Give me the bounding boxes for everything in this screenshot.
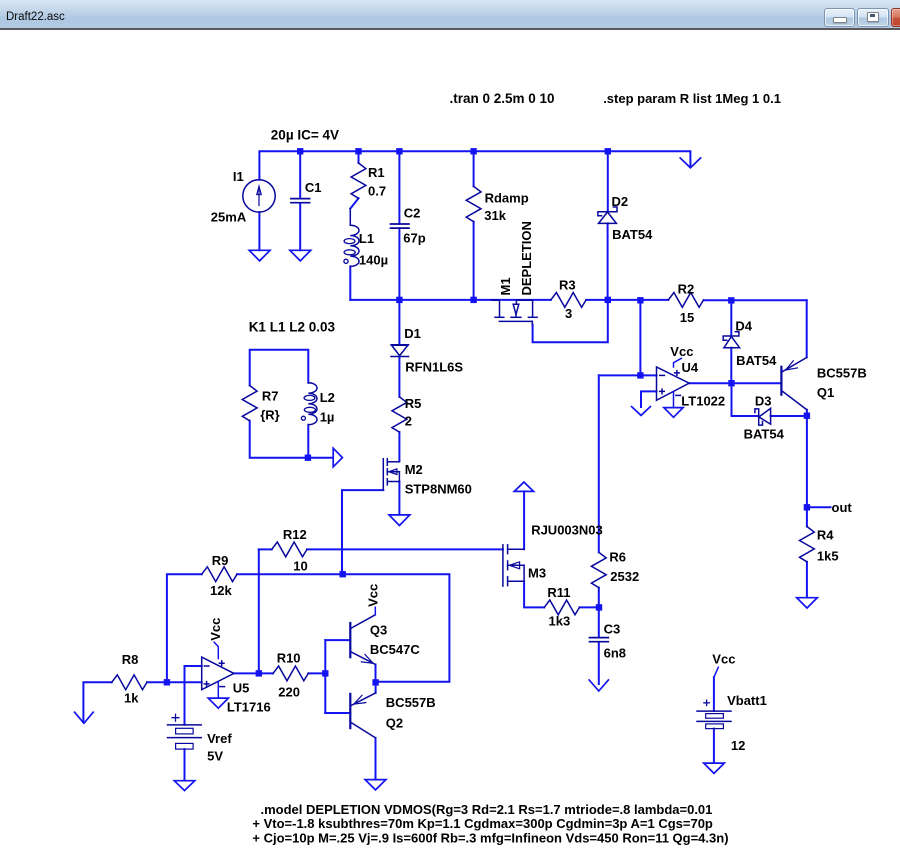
- current source I1: [243, 180, 275, 212]
- op-amp U5 power pins: [214, 642, 218, 658]
- capacitor C2: [391, 224, 410, 228]
- junction C2 top: [396, 148, 402, 154]
- svg-text:2532: 2532: [610, 569, 639, 584]
- wire bottom bus middle segment: [586, 299, 668, 301]
- svg-text:L2: L2: [320, 390, 335, 405]
- svg-text:{R}: {R}: [260, 407, 280, 422]
- Vcc net flag stub at Q3: [374, 607, 376, 615]
- junction U4 riser bus: [637, 297, 643, 303]
- svg-text:R2: R2: [678, 282, 695, 297]
- svg-text:Vcc: Vcc: [712, 651, 735, 666]
- diode D1: [391, 345, 409, 357]
- ground above M3 drain: [514, 482, 533, 491]
- svg-text:1k: 1k: [124, 691, 139, 706]
- capacitor C1: [291, 199, 310, 203]
- wire I1 bottom to ground: [258, 212, 260, 250]
- resistor R1: [351, 163, 366, 198]
- svg-text:+ Cjo=10p M=.25 Vj=.9 Is=600f: + Cjo=10p M=.25 Vj=.9 Is=600f Rb=.3 mfg=…: [252, 830, 728, 845]
- resistor R11: [544, 600, 579, 615]
- junction R11 R6 C3 node: [596, 604, 602, 610]
- wire U4 output to Q1 base node: [689, 382, 781, 384]
- svg-text:BAT54: BAT54: [612, 227, 653, 242]
- wire M1 gate to D2 node: [533, 300, 608, 342]
- ground under R4: [797, 598, 818, 608]
- ground under U4: [664, 408, 683, 418]
- svg-text:67p: 67p: [403, 231, 425, 246]
- wire junction to Q2 emitter: [375, 682, 377, 693]
- wire Q2 base stub: [325, 712, 350, 714]
- voltage source Vbatt1 battery: [697, 700, 731, 729]
- resistor R2: [668, 293, 703, 308]
- svg-text:M2: M2: [405, 462, 423, 477]
- wire Q1 collector to out node: [806, 410, 808, 508]
- wire L2 bottom lead: [307, 425, 309, 458]
- wire Rdamp bottom lead: [473, 222, 475, 300]
- transistor M1 depletion mosfet: [492, 300, 537, 325]
- wire Q3 base stub: [325, 639, 350, 641]
- diode D3 schottky: [755, 408, 771, 425]
- wire R9 left lead with riser to R8 node: [167, 574, 202, 682]
- wire R5 to M2 drain: [398, 432, 400, 461]
- transistor M2 STP8NM60: [383, 459, 399, 490]
- wire M2 source to ground: [398, 482, 400, 515]
- wire R1 top lead: [358, 151, 360, 163]
- wire Vref bottom to ground: [184, 749, 186, 781]
- wire U5 output to R10: [234, 672, 273, 674]
- svg-text:.model DEPLETION VDMOS(Rg=3 Rd: .model DEPLETION VDMOS(Rg=3 Rd=2.1 Rs=1.…: [261, 802, 713, 817]
- wire Q2 collector to ground: [375, 738, 377, 780]
- junction U4 minus input: [637, 372, 643, 378]
- junction R9 M2 gate node: [340, 571, 346, 577]
- wire feedback loop to emitters: [343, 574, 450, 682]
- svg-text:C3: C3: [604, 622, 621, 637]
- ground right of K1 loop: [333, 448, 342, 467]
- transistor Q1 BC557B: [781, 358, 806, 410]
- junction D2 bottom bus: [605, 297, 611, 303]
- svg-text:Q1: Q1: [817, 385, 834, 400]
- wire bottom bus left segment: [350, 299, 551, 301]
- wire R1 to L1 diagonal: [350, 198, 358, 208]
- svg-text:R1: R1: [368, 165, 385, 180]
- svg-text:M3: M3: [528, 566, 546, 581]
- resistor R12: [272, 542, 307, 557]
- wire Q3 emitter to junction: [375, 665, 377, 683]
- svg-text:12k: 12k: [210, 583, 232, 598]
- resistor R10: [273, 666, 308, 681]
- voltage source Vref battery: [168, 714, 202, 749]
- svg-text:R9: R9: [212, 553, 229, 568]
- svg-text:6n8: 6n8: [604, 645, 626, 660]
- svg-text:R4: R4: [817, 528, 834, 543]
- svg-text:3: 3: [565, 306, 572, 321]
- ground under Vbatt1: [704, 763, 725, 773]
- svg-text:.tran 0 2.5m 0 10: .tran 0 2.5m 0 10: [450, 91, 555, 106]
- transistor Q2 BC557B: [350, 693, 375, 738]
- resistor Rdamp: [466, 186, 481, 221]
- diode D2 schottky: [598, 207, 617, 223]
- wire C3 top lead: [598, 607, 600, 637]
- wire out stub: [807, 506, 831, 508]
- junction out node: [804, 504, 810, 510]
- junction Q1 base node: [728, 380, 734, 386]
- junction R1 top: [355, 148, 361, 154]
- wire K1 loop bottom: [250, 421, 333, 458]
- svg-text:C1: C1: [305, 180, 322, 195]
- wire R6 riser: [598, 375, 600, 552]
- svg-text:15: 15: [680, 310, 694, 325]
- wire R10 right lead: [308, 672, 325, 674]
- arrow ground under C3: [589, 680, 608, 691]
- svg-text:+ Vto=-1.8 ksubthres=70m Kp=1.: + Vto=-1.8 ksubthres=70m Kp=1.1 Cgdmax=3…: [252, 816, 713, 831]
- wire D4 bottom lead: [730, 348, 732, 384]
- svg-text:Vbatt1: Vbatt1: [727, 693, 767, 708]
- svg-text:out: out: [832, 500, 853, 515]
- inductor L1: [344, 209, 359, 267]
- ground under Vref: [174, 781, 194, 791]
- svg-text:1k5: 1k5: [817, 548, 839, 563]
- wire bottom bus right segment: [704, 299, 807, 301]
- wire R12 node down to U5 output: [258, 549, 260, 673]
- wire R8 right to U5 plus input: [147, 681, 202, 683]
- wire R12 to M3 gate: [307, 548, 503, 550]
- resistor R3: [551, 293, 586, 308]
- diode D4 schottky: [723, 332, 739, 348]
- svg-text:Q3: Q3: [370, 623, 387, 638]
- svg-text:Vcc: Vcc: [208, 618, 223, 641]
- svg-text:140µ: 140µ: [359, 253, 388, 268]
- svg-text:R10: R10: [277, 650, 301, 665]
- svg-text:31k: 31k: [484, 208, 506, 223]
- wire Rdamp top lead: [473, 151, 475, 186]
- wire C3 bottom to arrow ground: [598, 642, 600, 684]
- svg-text:Vcc: Vcc: [365, 584, 380, 607]
- svg-text:Rdamp: Rdamp: [485, 191, 529, 206]
- svg-text:U4: U4: [682, 360, 699, 375]
- svg-text:C2: C2: [404, 206, 421, 221]
- svg-text:10: 10: [293, 558, 307, 573]
- wire Vbatt1 bottom to ground: [713, 729, 715, 763]
- svg-text:R12: R12: [283, 527, 307, 542]
- svg-text:BC557B: BC557B: [817, 366, 867, 381]
- wire U4 plus input to arrow ground: [641, 391, 657, 407]
- svg-text:K1 L1 L2 0.03: K1 L1 L2 0.03: [249, 319, 336, 334]
- svg-text:BAT54: BAT54: [744, 426, 785, 441]
- wire C1 bottom to ground: [299, 203, 301, 250]
- svg-text:20µ IC= 4V: 20µ IC= 4V: [271, 127, 339, 142]
- wire M2 gate run to R9 node: [342, 490, 383, 574]
- op-amp U4 LT1022: [657, 367, 690, 400]
- svg-text:R6: R6: [609, 550, 626, 565]
- svg-text:BC557B: BC557B: [386, 695, 436, 710]
- junction Rdamp top: [470, 148, 476, 154]
- svg-text:R8: R8: [122, 652, 139, 667]
- wire D2 top lead: [607, 151, 609, 211]
- svg-text:LT1022: LT1022: [681, 393, 725, 408]
- svg-text:2: 2: [405, 413, 412, 428]
- ground under C1: [290, 250, 311, 261]
- svg-text:Vref: Vref: [207, 731, 232, 746]
- junction C2 bottom bus: [396, 297, 402, 303]
- wire L1 bottom lead: [349, 266, 351, 300]
- svg-text:D2: D2: [612, 194, 629, 209]
- wire M3 source to R11: [524, 581, 544, 607]
- inductor L2: [301, 383, 317, 425]
- junction Q1 collector D3: [804, 413, 810, 419]
- svg-text:U5: U5: [233, 681, 250, 696]
- wire R4 bottom to ground: [806, 562, 808, 598]
- svg-text:D1: D1: [404, 326, 421, 341]
- junction R8 R9 node: [164, 679, 170, 685]
- svg-text:R3: R3: [559, 277, 576, 292]
- wire K1 loop left and top: [250, 350, 309, 386]
- wire R8 left to arrow ground: [83, 682, 111, 721]
- wire U4 minus input from R6 riser: [599, 374, 657, 376]
- svg-text:RFN1L6S: RFN1L6S: [405, 360, 463, 375]
- wire Q1 base node down to D3: [732, 383, 759, 416]
- svg-text:R5: R5: [405, 396, 422, 411]
- resistor R9: [202, 567, 237, 582]
- wire R6 bottom lead: [598, 588, 600, 608]
- ground under I1: [249, 250, 270, 261]
- ground under Q2: [365, 780, 386, 790]
- wire R11 right lead: [580, 606, 600, 608]
- wire M3 drain to up ground: [523, 491, 525, 549]
- junction R10 right: [322, 670, 328, 676]
- wire C2 top lead: [398, 151, 400, 224]
- wire bus node to U4 minus input: [639, 300, 641, 375]
- wire Vcc flag to Vbatt1: [713, 677, 715, 711]
- arrow ground top right of bus: [680, 158, 700, 168]
- junction Rdamp bottom bus: [470, 297, 476, 303]
- svg-text:D4: D4: [735, 319, 752, 334]
- wire C2 bottom lead: [398, 228, 400, 300]
- svg-text:1k3: 1k3: [549, 614, 571, 629]
- svg-text:LT1716: LT1716: [227, 699, 271, 714]
- wire R2 right to Q1 emitter corner: [806, 300, 808, 357]
- svg-text:25mA: 25mA: [211, 209, 247, 224]
- svg-text:I1: I1: [233, 169, 244, 184]
- svg-text:5V: 5V: [207, 748, 223, 763]
- svg-text:.step param R list 1Meg 1 0.1: .step param R list 1Meg 1 0.1: [603, 91, 781, 106]
- svg-text:M1: M1: [498, 277, 513, 295]
- junction C1 top: [297, 148, 303, 154]
- resistor R6: [591, 552, 606, 587]
- wire U5 minus input: [185, 666, 202, 725]
- resistor R7: [242, 386, 257, 421]
- junction U5 output: [256, 670, 262, 676]
- svg-text:DEPLETION: DEPLETION: [519, 221, 534, 295]
- svg-text:Q2: Q2: [386, 715, 403, 730]
- wire D1 to R5: [398, 357, 400, 397]
- svg-text:220: 220: [278, 684, 300, 699]
- ground under U5: [208, 698, 228, 708]
- transistor M3 RJU003N03: [503, 545, 524, 586]
- Vcc net flag stub at Vbatt1: [714, 667, 718, 677]
- svg-text:STP8NM60: STP8NM60: [405, 481, 472, 496]
- resistor R4: [800, 527, 815, 562]
- wire R12 left lead: [259, 548, 272, 550]
- wire D3 right lead: [771, 415, 807, 417]
- op-amp U4 power pins: [674, 358, 682, 367]
- ground under M2: [389, 515, 410, 526]
- svg-text:0.7: 0.7: [368, 184, 386, 199]
- wire C1 top lead: [299, 151, 301, 198]
- arrow ground left of R8: [75, 712, 94, 723]
- svg-text:BC547C: BC547C: [370, 642, 420, 657]
- svg-text:L1: L1: [359, 231, 374, 246]
- svg-text:12: 12: [731, 738, 745, 753]
- svg-text:1µ: 1µ: [320, 409, 335, 424]
- svg-text:BAT54: BAT54: [736, 353, 777, 368]
- arrow ground under U4 plus input: [632, 407, 651, 416]
- junction D2 top: [605, 148, 611, 154]
- junction emitters: [372, 679, 378, 685]
- wire Q3 Q2 base riser: [324, 640, 326, 713]
- wire D4 top lead: [730, 300, 732, 335]
- transistor Q3 BC547C: [350, 615, 375, 665]
- wire R9 right to M2 gate node: [237, 573, 343, 575]
- capacitor C3: [590, 638, 609, 642]
- wire R4 top lead: [806, 507, 808, 526]
- svg-text:R11: R11: [547, 585, 570, 600]
- wire D2 bottom lead: [607, 223, 609, 300]
- svg-text:RJU003N03: RJU003N03: [531, 522, 603, 537]
- op-amp U5 LT1716: [202, 657, 234, 690]
- wire top bus: [259, 151, 690, 180]
- resistor R5: [392, 397, 407, 432]
- svg-text:D3: D3: [755, 393, 772, 408]
- wire D1 top lead: [398, 300, 400, 345]
- junction L2 bottom: [305, 455, 311, 461]
- svg-text:R7: R7: [262, 388, 279, 403]
- resistor R8: [112, 675, 147, 690]
- svg-text:Vcc: Vcc: [670, 344, 693, 359]
- junction D4 top: [728, 297, 734, 303]
